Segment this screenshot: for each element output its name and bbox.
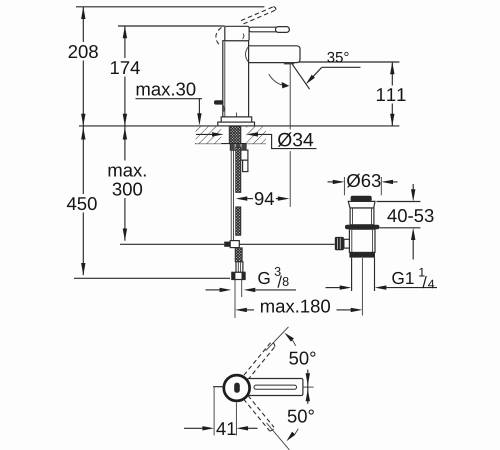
wire water stream line 35deg — [292, 64, 309, 89]
base flare — [221, 117, 252, 122]
label 35deg — [327, 52, 348, 63]
label 94 — [255, 192, 274, 205]
lever hinge tick — [243, 34, 244, 39]
mounting stud lower — [243, 160, 248, 171]
aerator — [284, 62, 294, 64]
wire extension line 450 bottom — [74, 277, 230, 279]
flexible hose lower braid — [236, 207, 241, 235]
wire 35deg lower shelf — [322, 66, 361, 68]
base plate escutcheon — [218, 122, 255, 126]
pull rod knob behind body — [214, 100, 224, 104]
drain lower body — [349, 229, 375, 252]
dashed lever position lower 50deg — [244, 399, 270, 431]
leader to label D34 — [258, 134, 317, 148]
label G1 1/4 — [392, 272, 413, 284]
dimension 174/max300 vertical line — [124, 26, 126, 241]
pop-up rod tee block — [230, 241, 239, 248]
top view: cartridge slot — [234, 383, 240, 393]
dimension 208/450 vertical line — [82, 7, 84, 275]
dimension 94 — [236, 196, 248, 200]
top view: body circle — [224, 375, 250, 401]
label max.180 — [261, 300, 330, 313]
threaded shank through counter — [229, 126, 241, 143]
dimension arrows G3/8 — [206, 289, 221, 291]
label 50deg lower — [288, 410, 314, 423]
wire aerator drop line / 94 extension — [289, 64, 291, 130]
pull rod upper hidden segment — [235, 113, 237, 126]
wire second extension line (lever rest level) — [118, 25, 225, 27]
mounting stud upper — [241, 150, 248, 160]
dimension 40-53 — [377, 201, 421, 203]
lever paddle tip — [276, 27, 290, 33]
label max. 300 — [104, 161, 151, 199]
wire countertop underside line — [195, 143, 266, 145]
countertop hatched section right — [246, 127, 266, 144]
drain centerline — [361, 258, 363, 316]
top view: lever slot — [254, 385, 297, 389]
drain: dimension D63 — [328, 181, 334, 183]
dimension max.180 — [235, 308, 247, 312]
label 41 — [217, 420, 236, 437]
wire hose stub lines — [234, 280, 236, 319]
drain rod clevis — [344, 239, 350, 248]
arrow to upper lever — [284, 333, 294, 342]
dimension arrows hole D34 — [196, 133, 213, 135]
wire stream arc arrow — [269, 74, 286, 86]
hose G3/8 nut — [232, 272, 245, 279]
arrow to lower lever — [286, 432, 295, 442]
drain neck flange — [348, 201, 375, 208]
spout collar bulge — [246, 47, 249, 62]
top view: left stub — [213, 386, 224, 388]
drain rod knob — [335, 237, 344, 250]
dimension arrows G1 1/4 — [326, 287, 341, 289]
dashed swing arc — [216, 28, 222, 47]
drain tailpipe — [351, 258, 353, 291]
top view: angle double arrow — [307, 370, 309, 404]
pull rod below counter — [230, 150, 232, 240]
lever knob — [225, 26, 249, 40]
countertop hatched section left — [196, 127, 222, 144]
mounting nut under counter — [230, 144, 246, 151]
label 450 — [64, 194, 100, 213]
label 40-53 — [387, 209, 433, 222]
lever handle bar — [249, 27, 289, 32]
drain upper cylinder — [350, 208, 374, 225]
pop-up rod tee nub — [224, 242, 230, 247]
faucet body column — [223, 41, 249, 117]
label G3/8 — [258, 272, 269, 284]
drain flange ring — [345, 225, 379, 229]
drain pop-up plug cap — [351, 196, 372, 202]
label 208 — [65, 42, 102, 61]
label 50deg upper — [289, 352, 315, 365]
dimension 111 vertical line — [391, 62, 393, 126]
drain bottom band — [349, 252, 375, 257]
label D63 — [347, 174, 381, 188]
dimension 41 — [213, 388, 215, 436]
top view: slot extension line — [303, 386, 314, 388]
wire 35deg leader baseline — [293, 61, 400, 63]
wire horizontal pop-up rod to drain — [239, 243, 334, 245]
wire top extension line (lever raised level) — [76, 6, 264, 8]
hose ferrule — [236, 262, 243, 273]
label max.30 with leader — [137, 83, 196, 96]
label D34 — [275, 131, 318, 148]
wire extension line max.300 bottom / pop-up rod — [120, 243, 224, 245]
label 174 — [108, 58, 142, 77]
dashed lever position upper 50deg — [248, 347, 275, 380]
label 111 — [375, 86, 408, 104]
wire 35deg diagonal leader with arrow — [310, 67, 322, 80]
dashed raised lever — [241, 7, 273, 21]
wire countertop surface line — [79, 125, 399, 127]
wire lower lever axis extension — [267, 423, 290, 450]
faucet spout — [249, 46, 300, 63]
wire upper lever axis extension — [266, 327, 289, 351]
top view: lever rectangle — [247, 379, 303, 396]
hose braid below tee — [235, 248, 242, 262]
flexible hose upper braid — [236, 147, 241, 192]
